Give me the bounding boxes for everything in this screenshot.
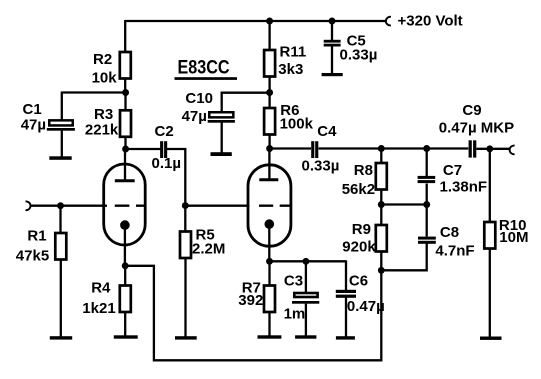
capacitor C4 plates (311, 141, 314, 158)
wire C8 top lead (426, 205, 428, 237)
capacitor C5 plates (324, 40, 341, 43)
resistor R3 (120, 110, 131, 137)
node R8 R9 (378, 201, 385, 208)
wire C4 to C9 (319, 147, 469, 149)
node R2 R3 C1 (122, 89, 129, 96)
svg-text:R4: R4 (91, 280, 111, 297)
svg-text:221k: 221k (85, 122, 119, 139)
wire R5 top lead (184, 206, 186, 232)
terminal input (26, 201, 31, 210)
svg-text:47k5: 47k5 (16, 248, 49, 265)
svg-text:10k: 10k (92, 69, 118, 86)
svg-text:1k21: 1k21 (82, 300, 115, 317)
wire feedback loop bottom (125, 266, 381, 361)
capacitor C10 bottom plate (208, 120, 235, 123)
node input R1 (57, 202, 64, 209)
node R3 C2 anode1 (122, 146, 129, 153)
wire C3 top lead (305, 261, 307, 293)
capacitor C8 plates (418, 237, 436, 240)
wire R4 top lead (124, 266, 126, 286)
svg-text:R9: R9 (352, 221, 371, 238)
wire C3 bottom lead (305, 304, 307, 338)
ground R7 (258, 335, 282, 338)
wire C5 top lead (331, 21, 333, 40)
svg-text:C2: C2 (155, 123, 174, 140)
svg-text:3k3: 3k3 (278, 61, 303, 78)
wire R6 bottom lead (268, 135, 270, 150)
wire R8 bottom lead (380, 190, 382, 206)
svg-text:920k: 920k (342, 239, 376, 256)
node C7 top (423, 145, 430, 152)
svg-text:47µ: 47µ (21, 116, 46, 133)
wire input to tube1 grid (31, 205, 108, 207)
svg-text:C9: C9 (462, 102, 481, 119)
wire node A to C1 (62, 91, 126, 93)
svg-text:E83CC: E83CC (178, 58, 230, 79)
node C5 top (329, 18, 336, 25)
wire C1 top lead (61, 92, 63, 121)
svg-text:56k2: 56k2 (342, 181, 375, 198)
wire tube1 anode lead (124, 149, 126, 181)
wire R9 bottom to C8 bottom (381, 243, 426, 270)
wire C9 to output (476, 148, 509, 150)
resistor R4 (120, 286, 131, 313)
tube V2 envelope (248, 165, 291, 246)
wire C5 bottom lead (331, 46, 333, 74)
tube V1 envelope (104, 164, 146, 245)
wire node C to C10 (221, 92, 270, 94)
svg-text:0.33µ: 0.33µ (302, 158, 340, 175)
ground R4 (114, 335, 138, 338)
wire tube2 anode lead (268, 149, 270, 181)
ground C1 (49, 156, 71, 160)
wire R11 top lead (268, 21, 270, 50)
ground C6 (336, 336, 355, 339)
tube V2 cathode dot (265, 219, 275, 229)
wire node B to C2 (126, 148, 161, 150)
wire tube2 cathode lead (268, 224, 270, 261)
wire R3 bottom lead (124, 137, 126, 150)
wire R8 to C7 bottom (381, 203, 426, 205)
capacitor C3 top plate (294, 293, 317, 297)
wire C10 top lead (221, 92, 223, 113)
wire node D to C4 (270, 147, 311, 149)
svg-text:R8: R8 (354, 162, 373, 179)
wire R8 top lead (380, 149, 382, 164)
svg-text:C3: C3 (284, 273, 303, 290)
resistor R1 (55, 233, 66, 260)
wire R2 bottom lead (124, 79, 126, 94)
wire R1 bottom lead (60, 260, 62, 338)
wire R6 top lead (268, 93, 270, 109)
wire R10 top lead (489, 149, 491, 222)
terminal +320V (386, 17, 391, 26)
svg-text:1m: 1m (284, 305, 306, 322)
resistor R11 (264, 50, 275, 77)
svg-text:C10: C10 (185, 90, 213, 107)
node C4 R8 (378, 145, 385, 152)
wire C6 bottom lead (345, 297, 347, 338)
wire R9 bottom lead (380, 252, 382, 271)
ground R1 (50, 336, 72, 339)
wire tube2 grid dashes (259, 205, 290, 207)
resistor R8 (376, 163, 387, 190)
tube V2 anode plate (259, 178, 278, 181)
node cathode2 R7 (266, 258, 273, 265)
ground C10 (211, 152, 232, 156)
node C9 R10 output (486, 145, 493, 152)
wire R7 top lead (268, 261, 270, 285)
resistor R7 (264, 286, 275, 313)
resistor R6 (264, 108, 275, 135)
svg-text:0.1µ: 0.1µ (152, 155, 182, 172)
svg-text:R1: R1 (27, 227, 46, 244)
ground R5 (175, 336, 197, 339)
svg-text:2.2M: 2.2M (192, 240, 225, 257)
ground C3 (295, 335, 316, 338)
node R9 C8 feedback (378, 267, 385, 274)
wire R3 top lead (124, 93, 126, 111)
wire tube1 cathode lead (124, 225, 126, 267)
svg-text:0.47µ: 0.47µ (347, 298, 385, 315)
wire tube1 grid dashes (115, 205, 145, 207)
wire C7 bottom lead (426, 184, 428, 205)
wire C1 bottom lead (61, 131, 63, 159)
wire C2 to tube2 grid (167, 149, 250, 206)
wire R10 bottom lead (489, 249, 491, 338)
wire top rail +320V (125, 20, 385, 22)
svg-text:R2: R2 (93, 51, 112, 68)
svg-text:10M: 10M (499, 229, 528, 246)
tube V1 cathode dot (120, 220, 130, 230)
wire R2 top lead (124, 20, 126, 52)
wire R9 top lead (380, 205, 382, 226)
node C7 bottom (423, 201, 430, 208)
svg-text:C7: C7 (443, 162, 462, 179)
wire C10 bottom lead (221, 123, 223, 154)
svg-text:R11: R11 (280, 44, 307, 61)
capacitor C1 top plate (49, 120, 73, 125)
wire R5 bottom lead (184, 258, 186, 338)
capacitor C2 plates (160, 141, 163, 158)
wire C6 top lead (345, 260, 347, 290)
capacitor C9 plates (469, 140, 472, 157)
node R11 R6 C10 (266, 89, 273, 96)
svg-text:100k: 100k (280, 115, 314, 132)
svg-text:C4: C4 (317, 123, 337, 140)
tube V1 anode plate (115, 179, 135, 182)
wire R7 bottom lead (268, 312, 270, 338)
svg-text:C8: C8 (440, 224, 459, 241)
svg-text:1.38nF: 1.38nF (440, 178, 488, 195)
capacitor C6 plates (336, 290, 356, 293)
svg-text:392: 392 (238, 292, 263, 309)
terminal output (510, 146, 515, 155)
wire R4 bottom lead (124, 312, 126, 338)
node C3 top (302, 258, 309, 265)
wire R1 top lead (59, 206, 61, 233)
resistor R2 (120, 52, 131, 79)
capacitor C3 bottom plate (292, 301, 319, 304)
svg-text:4.7nF: 4.7nF (435, 242, 474, 259)
svg-text:0.33µ: 0.33µ (340, 47, 378, 64)
ground R10 (480, 337, 502, 340)
wire R11 bottom lead (268, 77, 270, 94)
capacitor C1 bottom plate (47, 128, 75, 131)
svg-text:C6: C6 (349, 273, 368, 290)
node R5 grid2 (182, 202, 189, 209)
wire cathode2 to C3 C6 (270, 260, 347, 262)
node R6 C4 anode2 (266, 145, 273, 152)
node R11 top (266, 18, 273, 25)
node cathode1 R4 feedback (122, 262, 129, 269)
svg-text:+320 Volt: +320 Volt (398, 12, 463, 29)
resistor R10 (484, 222, 495, 249)
resistor R9 (376, 225, 387, 252)
svg-text:R3: R3 (94, 106, 113, 123)
wire C7 top lead (426, 149, 428, 177)
svg-text:C1: C1 (23, 101, 42, 118)
ground C5 (322, 73, 343, 76)
capacitor C7 plates (418, 176, 436, 179)
svg-text:0.47µ MKP: 0.47µ MKP (439, 119, 514, 136)
svg-text:47µ: 47µ (182, 108, 207, 125)
resistor R5 (180, 232, 191, 259)
capacitor C10 top plate (209, 112, 233, 117)
